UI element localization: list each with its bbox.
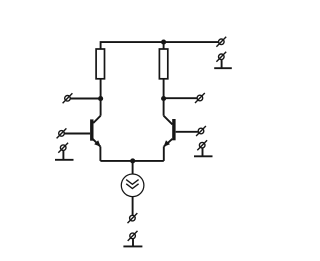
wire right collector vertical <box>163 99 165 116</box>
terminal P1 (left output) <box>63 93 73 103</box>
ground right (terminal + earth bar) <box>194 140 213 156</box>
transistor Q2 (right NPN, mirrored) <box>164 116 176 147</box>
node at R2 top junction <box>161 40 166 45</box>
terminal P5 (right input) <box>196 126 206 136</box>
wire left collector node to terminal P1 <box>70 98 100 100</box>
ground bottom (terminal + earth bar) <box>123 231 142 247</box>
resistor R1 <box>96 49 104 79</box>
wire R1 bottom to left collector node <box>100 79 102 99</box>
terminal P4 (right output) <box>195 93 205 103</box>
wire emitter rail <box>100 160 163 162</box>
terminal P2 (left input) <box>57 128 67 138</box>
wire emitter node to current source <box>132 161 134 174</box>
wire stub from top rail down to R2 <box>163 42 165 49</box>
wire Q2 emitter vertical <box>163 147 165 161</box>
node emitter junction <box>130 158 135 163</box>
terminal P3 (tail) <box>128 213 138 223</box>
node left collector junction <box>98 96 103 101</box>
terminal P6 (VCC) <box>216 37 226 47</box>
ground left (terminal + earth bar) <box>55 143 74 160</box>
wire current source to terminal P3 <box>132 196 134 215</box>
wire Q1 base to terminal P2 <box>64 133 90 135</box>
current source I1 <box>121 174 144 197</box>
transistor Q1 (left NPN) <box>90 116 101 147</box>
node right collector junction <box>161 96 166 101</box>
resistor R2 <box>159 49 167 79</box>
wire right collector node to terminal P4 <box>164 97 198 99</box>
wire top rail from R1 top to VCC terminal <box>101 42 219 49</box>
wire R2 bottom to right collector node <box>163 79 165 99</box>
wire Q2 base to terminal P5 <box>176 131 199 133</box>
ground top-right (terminal + earth bar) <box>214 52 232 68</box>
wire left collector vertical <box>100 99 102 116</box>
wire Q1 emitter vertical <box>99 147 101 161</box>
